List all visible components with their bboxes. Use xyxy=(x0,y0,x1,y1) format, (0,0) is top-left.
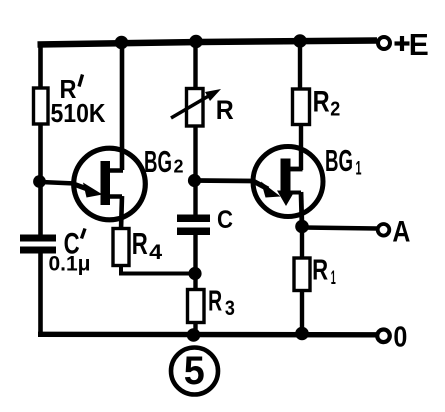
node junction bottom of R3 xyxy=(187,328,201,342)
node junction base of BG2 xyxy=(33,175,46,188)
svg-text:5: 5 xyxy=(184,349,205,393)
node junction bottom of R1 xyxy=(295,327,309,341)
svg-text:1: 1 xyxy=(331,268,336,289)
label BG2 xyxy=(144,144,184,179)
svg-text:A: A xyxy=(392,215,410,248)
terminal A xyxy=(378,215,411,248)
svg-text:2: 2 xyxy=(330,97,340,120)
resistor R1 xyxy=(294,258,310,291)
resistor R3 xyxy=(188,290,205,323)
transistor BG1 xyxy=(253,147,323,217)
label R3 xyxy=(208,285,235,320)
resistor R' xyxy=(34,88,49,124)
wire BG2 base lead xyxy=(41,182,75,184)
resistor R2 xyxy=(293,89,310,125)
value label C' 0.1u xyxy=(49,227,91,275)
node junction middle (base of BG1) xyxy=(188,174,201,187)
label BG1 xyxy=(325,143,362,180)
svg-text:4: 4 xyxy=(149,240,162,264)
capacitor C xyxy=(177,215,210,236)
svg-text:C: C xyxy=(217,206,233,234)
label R2 xyxy=(313,85,341,120)
transistor BG2 xyxy=(74,148,146,220)
label R1 xyxy=(312,254,336,289)
svg-text:BG: BG xyxy=(325,143,353,178)
svg-text:BG: BG xyxy=(144,144,172,179)
label R4 xyxy=(132,226,163,264)
resistor R4 xyxy=(113,229,129,266)
wire to BG1 base xyxy=(196,178,254,183)
svg-text:R: R xyxy=(132,226,148,261)
wire middle column (rail to R) xyxy=(193,41,197,90)
svg-text:0.1μ: 0.1μ xyxy=(49,253,91,276)
svg-text:R: R xyxy=(312,254,328,286)
node junction on rail above R2 xyxy=(293,34,307,48)
capacitor C' xyxy=(20,235,56,254)
node junction above R3 xyxy=(188,267,201,280)
wire BG2 collector to rail xyxy=(120,42,125,170)
wire R3 to 0 rail xyxy=(193,322,197,337)
node junction on rail above BG2 collector xyxy=(115,36,129,50)
svg-text:0: 0 xyxy=(393,321,407,353)
svg-text:510K: 510K xyxy=(51,98,106,128)
label R xyxy=(216,95,234,125)
wire left column top (rail to R') xyxy=(38,42,43,90)
wire node A to R1 xyxy=(300,227,304,259)
terminal 0 xyxy=(377,321,407,353)
svg-text:E: E xyxy=(409,27,429,62)
wire R2 top (rail to R2) xyxy=(298,41,302,90)
terminal +E xyxy=(378,27,429,62)
value label R' 510K xyxy=(51,74,106,128)
wire BG1 emitter down to node A xyxy=(301,192,302,227)
wire left column bottom (C' to 0 rail) xyxy=(38,253,43,337)
node junction emitter/A xyxy=(295,220,309,234)
label C xyxy=(217,206,233,234)
figure number 5 xyxy=(171,348,218,395)
svg-text:1: 1 xyxy=(356,159,362,180)
variable resistor R xyxy=(171,89,221,127)
wire R1 to 0 rail xyxy=(300,290,304,335)
svg-text:R: R xyxy=(208,285,222,317)
wire bottom 0 rail xyxy=(38,332,376,338)
wire R4 bottom to node below C xyxy=(121,265,196,274)
node junction on rail above R xyxy=(189,35,203,49)
wire top supply rail xyxy=(38,41,378,45)
wire BG2 emitter to R4 xyxy=(121,196,122,230)
svg-text:3: 3 xyxy=(225,297,235,320)
svg-text:R: R xyxy=(313,85,330,118)
wire middle column (C to R3) xyxy=(193,235,197,291)
wire R2 to BG1 collector xyxy=(299,124,303,170)
wire to terminal A xyxy=(303,228,377,229)
wire middle column (R to C) xyxy=(193,126,197,216)
svg-text:2: 2 xyxy=(174,157,184,177)
wire left column middle (R' to C') xyxy=(38,124,43,236)
svg-text:R: R xyxy=(216,95,234,125)
